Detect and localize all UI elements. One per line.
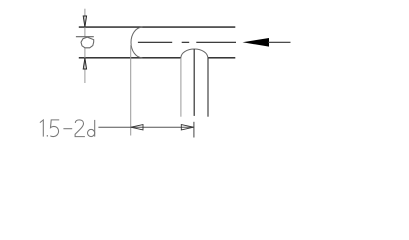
decimal point [46, 135, 48, 137]
branch centerline [193, 49, 195, 116]
branch right wall [207, 58, 209, 117]
dimension line 1.5-2d [98, 126, 193, 128]
digit 2 [75, 120, 85, 137]
small-d top arrow (open, pointing down) [83, 16, 86, 27]
dimension left open arrow (pointing left) [131, 125, 143, 130]
branch left wall [180, 58, 182, 117]
small d glyph (rotated 90 CCW) [76, 37, 94, 48]
flow arrow tail [268, 41, 291, 43]
dimension extension line from cap end [130, 45, 132, 136]
small-d dimension line lower segment [84, 48, 86, 83]
dimension text 1.5-2d [40, 120, 95, 137]
digit 5 [50, 120, 59, 137]
dimension right open arrow (pointing right) [181, 125, 193, 130]
pipe centerline (dashed) [138, 41, 236, 43]
letter d [94, 120, 96, 137]
pipe bottom wall right segment [208, 57, 236, 59]
elliptical end cap [131, 27, 142, 58]
flow arrow head [243, 38, 270, 47]
branch dome (intersection curve) [181, 49, 208, 58]
small-d bottom arrow (open, pointing up) [83, 58, 86, 69]
dimension extension line at branch centerline [193, 122, 195, 138]
small-d dimension line upper segment [84, 9, 86, 37]
hyphen [63, 128, 72, 130]
pipe top wall [79, 26, 236, 28]
pipe bottom wall left segment [79, 57, 181, 59]
digit 1 [40, 120, 43, 137]
